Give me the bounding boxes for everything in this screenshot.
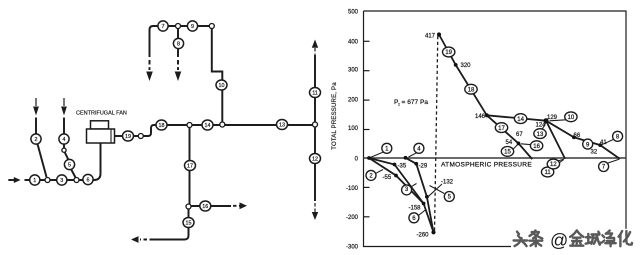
svg-text:12: 12 bbox=[550, 162, 557, 168]
svg-text:Pt = 677 Pa: Pt = 677 Pa bbox=[394, 99, 428, 107]
svg-text:17: 17 bbox=[187, 164, 193, 170]
svg-text:11: 11 bbox=[544, 170, 551, 176]
svg-text:41: 41 bbox=[600, 140, 607, 146]
svg-text:4: 4 bbox=[63, 137, 66, 143]
svg-text:14: 14 bbox=[517, 117, 524, 123]
svg-text:417: 417 bbox=[425, 33, 436, 39]
svg-text:@: @ bbox=[550, 231, 568, 251]
svg-text:18: 18 bbox=[468, 87, 475, 93]
svg-text:10: 10 bbox=[568, 115, 575, 121]
svg-text:3: 3 bbox=[60, 178, 63, 184]
svg-text:15: 15 bbox=[504, 150, 511, 156]
svg-text:16: 16 bbox=[202, 204, 208, 210]
svg-text:100: 100 bbox=[348, 126, 359, 132]
svg-text:32: 32 bbox=[591, 150, 598, 156]
svg-text:7: 7 bbox=[162, 24, 165, 30]
svg-text:6: 6 bbox=[87, 178, 90, 184]
svg-text:13: 13 bbox=[537, 132, 544, 138]
svg-text:-158: -158 bbox=[409, 205, 422, 211]
svg-text:320: 320 bbox=[461, 63, 472, 69]
svg-text:-200: -200 bbox=[346, 215, 359, 221]
svg-text:124: 124 bbox=[535, 122, 546, 128]
svg-text:66: 66 bbox=[574, 133, 581, 139]
svg-text:54: 54 bbox=[506, 140, 513, 146]
svg-text:5: 5 bbox=[68, 163, 71, 169]
svg-text:-132: -132 bbox=[441, 180, 454, 186]
svg-text:11: 11 bbox=[312, 91, 318, 97]
svg-text:9: 9 bbox=[191, 24, 194, 30]
svg-text:18: 18 bbox=[159, 123, 165, 129]
svg-text:200: 200 bbox=[348, 98, 359, 104]
svg-text:12: 12 bbox=[312, 157, 318, 163]
svg-text:500: 500 bbox=[348, 10, 359, 16]
svg-text:13: 13 bbox=[279, 123, 285, 129]
svg-text:17: 17 bbox=[498, 126, 505, 132]
svg-text:19: 19 bbox=[445, 50, 452, 56]
svg-text:-260: -260 bbox=[417, 233, 430, 239]
svg-text:-300: -300 bbox=[346, 245, 359, 251]
svg-text:-35: -35 bbox=[398, 163, 407, 169]
svg-text:-55: -55 bbox=[383, 175, 392, 181]
svg-text:129: 129 bbox=[547, 115, 558, 121]
svg-text:146: 146 bbox=[475, 114, 486, 120]
svg-text:15: 15 bbox=[186, 221, 192, 227]
svg-text:67: 67 bbox=[516, 132, 523, 138]
svg-text:1: 1 bbox=[33, 178, 36, 184]
svg-text:16: 16 bbox=[533, 144, 540, 150]
svg-text:ATMOSPHERIC PRESSURE: ATMOSPHERIC PRESSURE bbox=[441, 162, 532, 169]
svg-text:CENTRIFUGAL FAN: CENTRIFUGAL FAN bbox=[76, 111, 127, 117]
svg-text:8: 8 bbox=[177, 42, 180, 48]
svg-text:10: 10 bbox=[219, 83, 225, 89]
svg-text:19: 19 bbox=[125, 134, 131, 140]
svg-text:-29: -29 bbox=[419, 164, 428, 170]
svg-text:2: 2 bbox=[35, 137, 38, 143]
svg-text:300: 300 bbox=[348, 68, 359, 74]
svg-text:400: 400 bbox=[348, 40, 359, 46]
svg-text:TOTAL PRESSURE, Pa: TOTAL PRESSURE, Pa bbox=[332, 82, 338, 150]
svg-text:14: 14 bbox=[205, 123, 211, 129]
svg-text:-100: -100 bbox=[346, 186, 359, 192]
